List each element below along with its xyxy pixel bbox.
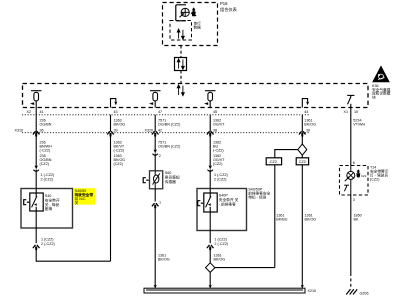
in-line connector box with arrows [175,58,187,71]
arrow into S40 [35,166,38,170]
svg-text:10: 10 [354,110,358,114]
SDM internal switch pin 10 [347,95,354,107]
svg-text:X2: X2 [27,110,32,114]
svg-text:(-CZ2): (-CZ2) [40,149,51,153]
ground bus bar [144,288,305,293]
S40 switch blade [32,189,37,229]
svg-text:39: 39 [306,128,310,132]
wire w4 1362 vertical [209,136,211,165]
arrow into S40P [209,166,212,170]
svg-text:1 (CZ2): 1 (CZ2) [214,238,227,242]
component P16 instrument cluster (dashed box) [163,3,218,46]
svg-text:X1: X1 [344,110,349,114]
serial data arrows inside SDM [177,85,184,96]
-CZ2 branch horizontal into diamond [215,267,275,269]
dotted harness line A [22,114,310,116]
svg-text:(CZ2): (CZ2) [370,178,379,182]
SDM internal fuse output pin 47 [149,91,161,108]
svg-text:数据: 数据 [194,25,202,30]
T14 switch symbol [344,166,351,196]
chassis ground G206 [346,289,357,294]
svg-text:座椅: 座椅 [45,206,53,211]
svg-text:带扣 - 侦测: 带扣 - 侦测 [248,195,266,200]
svg-text:36: 36 [40,128,44,132]
S40P passenger seat belt switch box [197,189,247,231]
in-line connector hook w2 [107,131,114,136]
S40P E-bracket [198,201,204,206]
svg-text:BK/OG: BK/OG [305,218,317,222]
dashed ground lead [350,273,352,290]
SDM internal fuse output pin 45 [204,91,216,108]
svg-text:(CZ2): (CZ2) [213,162,222,166]
svg-text:2 (-CZ2): 2 (-CZ2) [214,242,228,246]
splice diamond on w5 [298,144,307,155]
svg-text:关 - 驾驶: 关 - 驾驶 [45,202,60,207]
svg-text:39: 39 [114,128,118,132]
svg-text:- 前排乘客: - 前排乘客 [219,201,236,206]
svg-text:BK/BU: BK/BU [276,218,287,222]
S40 E-bracket [24,200,30,205]
indicator lamp (circle with cross and arrow) [180,8,190,17]
wire T14 to ground [350,195,352,273]
seat belt telltale icon [191,7,197,16]
serial data arrows (cluster) [177,29,184,39]
dotted harness line B [22,132,310,134]
SDM internal fuse output pin 41 [30,91,42,108]
svg-text:安全带开 关: 安全带开 关 [219,197,239,202]
svg-text:44: 44 [304,110,308,114]
SDM input entry pin 44 [302,99,309,108]
svg-text:CZ2: CZ2 [299,160,306,164]
svg-text:(CZ2): (CZ2) [40,162,49,166]
splice diamond ground joint [206,263,215,273]
wire w2 1363 vertical [110,136,112,261]
telltale lamp outline U-frame [176,5,186,21]
diamond to ground bus [209,272,211,287]
svg-text:2 (CZ2): 2 (CZ2) [214,178,227,182]
option box CZ2 [301,155,303,158]
svg-text:41: 41 [40,110,44,114]
bus entry arrowheads [154,285,157,288]
serial data wire (dashed) cluster to connector [180,46,182,58]
wire -CZ2 branch down [274,165,276,268]
S40 switch inner rect [30,193,43,211]
wire S40 to joint [36,250,110,261]
svg-text:传感器: 传感器 [165,179,176,184]
svg-text:(CZ2): (CZ2) [114,162,123,166]
svg-text:3: 3 [353,198,355,202]
wire w3 7571 vertical upper [154,136,156,149]
svg-text:OG/BN: OG/BN [40,123,52,127]
S60 occupant sensor box [150,171,163,189]
svg-text:1 (-CZ2): 1 (-CZ2) [214,173,228,177]
svg-text:安全带开: 安全带开 [45,198,60,203]
T14 lamp symbol [345,171,355,181]
svg-text:43: 43 [114,110,118,114]
wire S40P to splice diamond [209,250,211,263]
in-line connector hook w1 [33,131,40,136]
arrow into S60 pin 2 [154,150,157,154]
T14 belt icon [356,169,360,177]
S60 sensor symbol [153,171,160,189]
wire w1 236 vertical [35,108,37,166]
svg-text:BK/OG: BK/OG [304,123,316,127]
hook connector below S40 [33,245,40,250]
T14 seat belt indicator dashed box [340,166,369,196]
in-line connector hook w5 [299,131,306,136]
svg-text:OG/VT: OG/VT [213,123,225,127]
svg-text:1 (CZ2): 1 (CZ2) [41,238,54,242]
svg-text:1: 1 [159,201,161,205]
S40 lower wire [35,228,37,243]
wire CZ2 branch down to ground bus [301,165,303,288]
SRS warning triangle [373,67,389,82]
yellow highlight annotation S40/50 [74,188,95,204]
svg-text:CZ2: CZ2 [361,174,367,178]
svg-text:(-CZ2): (-CZ2) [114,149,125,153]
svg-text:38: 38 [213,128,217,132]
svg-text:1 (-CZ2): 1 (-CZ2) [41,173,55,177]
svg-text:6: 6 [353,161,355,165]
option branch: diamond to -CZ2 box [275,150,298,158]
svg-text:OG/BN (CZ2): OG/BN (CZ2) [158,145,180,149]
svg-text:块: 块 [372,94,376,99]
option box -CZ2 [266,158,281,165]
svg-text:BK/OG: BK/OG [158,258,170,262]
in-line connector hook w3 [152,131,159,136]
svg-text:42: 42 [158,128,162,132]
svg-text:2 (CZ2): 2 (CZ2) [41,178,54,182]
svg-text:-CZ2: -CZ2 [269,160,277,164]
hook connector below S40P [207,245,214,250]
S40P switch inner rect [204,193,217,212]
svg-text:47: 47 [158,110,162,114]
svg-text:BK/OG: BK/OG [214,258,226,262]
svg-text:BK: BK [354,218,359,222]
S40P switch blade [206,189,211,231]
svg-text:G206: G206 [360,292,369,296]
in-line connector hook w4 [207,131,214,136]
svg-text:BK/OG: BK/OG [114,123,126,127]
SDM K36 module (big dashed box) [23,84,369,108]
SDM input entry pin 43 [111,99,118,108]
svg-text:45: 45 [213,110,217,114]
hook connector below S60 pin 1 [152,203,159,208]
svg-text:OG/BN (CZ2): OG/BN (CZ2) [158,123,180,127]
S60 lower wire [154,189,156,202]
svg-text:X310: X310 [15,128,24,132]
wire w6 5234 vertical [350,108,352,166]
wire w5 1361 vertical to diamond [301,136,303,144]
svg-text:组合仪表: 组合仪表 [220,6,238,13]
svg-text:X210: X210 [308,289,317,293]
serial data wire (dashed) connector to SDM [180,71,182,84]
S40P lower wire [209,231,211,244]
S60 E-bracket [143,178,149,183]
svg-text:关: 关 [75,200,79,205]
svg-text:2 (-CZ2): 2 (-CZ2) [41,242,55,246]
S40 driver seat belt switch box [21,189,73,229]
wire S60 to ground bus [154,208,156,288]
svg-text:2: 2 [159,154,161,158]
svg-text:(-CZ2): (-CZ2) [213,149,224,153]
serial data interface box (cluster, dashed) [170,21,192,41]
svg-text:P16: P16 [220,1,228,6]
svg-text:乘员感知: 乘员感知 [165,175,180,180]
svg-text:VT/WH: VT/WH [353,123,365,127]
svg-text:X320: X320 [145,128,154,132]
